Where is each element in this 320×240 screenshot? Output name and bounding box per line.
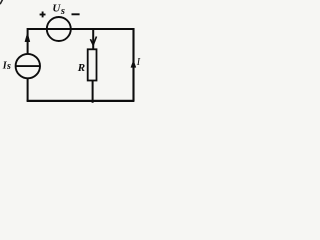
voltage source Us circle [47, 17, 71, 41]
label + polarity [40, 12, 46, 18]
arrowhead: Is current direction (up) [25, 33, 30, 42]
wire: resistor branch bottom [92, 81, 94, 103]
resistor R box [88, 49, 97, 80]
scan artifact top-left corner [0, 0, 2, 4]
current source Is circle [16, 54, 40, 78]
wire: bottom horizontal [27, 100, 135, 102]
wire: resistor branch top [92, 28, 94, 50]
wire: right vertical [132, 28, 134, 101]
wire: left vertical upper [27, 28, 29, 55]
current source Is crossbar [16, 65, 40, 67]
wire: left vertical lower [27, 78, 29, 101]
background [0, 0, 171, 105]
svg-text:R: R [77, 62, 85, 74]
svg-text:s: s [6, 61, 11, 72]
wire: top horizontal [27, 28, 134, 30]
label - polarity [72, 13, 80, 15]
svg-text:I: I [136, 57, 141, 68]
arrowhead: current into R (down, open V) [90, 37, 96, 45]
svg-text:s: s [60, 6, 65, 17]
arrowhead: load current I (up) [131, 60, 136, 67]
